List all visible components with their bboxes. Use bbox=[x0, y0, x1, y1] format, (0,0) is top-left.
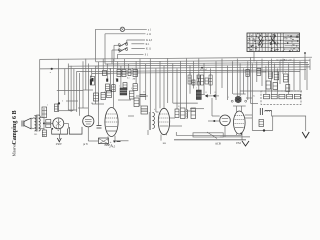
wire m10 bbox=[201, 94, 205, 96]
wire drop 44 bbox=[236, 59, 238, 96]
electrolytic C12 bbox=[90, 77, 94, 86]
wire m19 bbox=[128, 115, 134, 117]
wire left main drop bbox=[39, 59, 41, 115]
wire drop 47 bbox=[247, 61, 249, 100]
capacitor C16 bbox=[192, 80, 195, 85]
wire drop 37 bbox=[198, 59, 200, 90]
resistor R11 bbox=[107, 91, 112, 98]
wire drop 57 bbox=[279, 61, 281, 84]
wire V6 top2 bbox=[241, 106, 243, 112]
wire drop 14 bbox=[102, 59, 104, 71]
wire bus 7 bbox=[92, 72, 300, 74]
svg-text:0,1: 0,1 bbox=[96, 67, 98, 69]
wire S1b in bbox=[112, 49, 123, 51]
wire h103 bbox=[173, 102, 198, 104]
wire drop 52 bbox=[265, 66, 267, 95]
wire power top bbox=[240, 90, 302, 92]
wire V6 pin1 bbox=[236, 134, 238, 136]
wire bar 3b bbox=[174, 139, 246, 141]
wire drop 6 bbox=[76, 71, 78, 112]
wire drop 21 bbox=[128, 64, 130, 70]
resistor R8 bbox=[133, 84, 137, 91]
resistor R14 bbox=[42, 107, 47, 118]
wire S1a out bbox=[131, 43, 144, 45]
wire V1 leg1 bbox=[55, 127, 57, 129]
wire v252 bbox=[251, 98, 253, 131]
resistor R15 bbox=[46, 120, 51, 128]
capacitor C4 bbox=[260, 108, 262, 115]
svg-text:+: + bbox=[110, 141, 112, 145]
wire drop 30 bbox=[167, 59, 169, 103]
resistor R2 bbox=[117, 70, 121, 77]
wire m17 bbox=[58, 130, 59, 132]
wire drop 22 bbox=[131, 67, 133, 70]
battery box BA bbox=[99, 138, 109, 144]
mains bracket 2 bbox=[69, 127, 82, 134]
output transformer T2 bbox=[35, 115, 41, 132]
resistor R12 bbox=[129, 91, 134, 99]
resistor R26 bbox=[42, 130, 46, 137]
wire drop 43 bbox=[232, 61, 234, 94]
wire antenna lead bbox=[96, 28, 121, 30]
wire table stub left bbox=[253, 52, 255, 62]
resistor R18 bbox=[201, 75, 204, 85]
wire drop 5 bbox=[73, 68, 75, 110]
svg-text:0,1: 0,1 bbox=[178, 106, 180, 108]
IF transformer T3 (dark) bbox=[196, 90, 201, 100]
wire drop 2 bbox=[64, 68, 66, 95]
tube V6 EBL1 bbox=[234, 111, 246, 134]
arrow small left bbox=[242, 141, 249, 146]
wire m15 bbox=[245, 114, 252, 116]
wire V1 drop bbox=[67, 123, 69, 128]
wire S1b out bbox=[131, 48, 144, 50]
wire drop 15 bbox=[106, 64, 108, 79]
wire V1 leg2 bbox=[59, 128, 61, 134]
wire m2 bbox=[78, 107, 88, 109]
wire drop 49 bbox=[251, 64, 253, 99]
wire V1 right bbox=[64, 122, 69, 124]
wire m13b bbox=[211, 98, 213, 116]
wire bar 3a bbox=[113, 140, 129, 142]
wire drop 28 bbox=[159, 61, 161, 108]
wire V6 top1 bbox=[236, 106, 238, 112]
svg-text:0,1: 0,1 bbox=[107, 74, 110, 76]
wire V5 pin bbox=[224, 126, 226, 137]
wire drop 9 bbox=[85, 59, 87, 90]
wire drop 36 bbox=[193, 61, 195, 88]
mains bracket 1 bbox=[52, 129, 68, 135]
wire drop 35 bbox=[189, 66, 191, 94]
wire jack out bbox=[125, 28, 147, 30]
wire v272 bbox=[272, 116, 274, 131]
wire drop 41 bbox=[221, 59, 223, 88]
resistor R9 bbox=[94, 93, 99, 101]
wire battery dash bbox=[117, 141, 121, 143]
svg-text:5: 5 bbox=[119, 86, 120, 88]
svg-text:0,1: 0,1 bbox=[253, 96, 255, 98]
wire m16 bbox=[88, 140, 98, 142]
svg-text:b: b bbox=[154, 109, 155, 111]
svg-text:11: 11 bbox=[214, 92, 216, 94]
resistor R29 bbox=[191, 108, 196, 119]
svg-text:4: 4 bbox=[285, 72, 286, 74]
svg-text:250V: 250V bbox=[56, 143, 62, 146]
svg-text:2: 2 bbox=[228, 97, 229, 99]
resistor R19 bbox=[205, 78, 208, 84]
wire fan vertical x114 bbox=[113, 45, 115, 61]
wire m11 bbox=[208, 95, 213, 97]
wire drop 63 bbox=[306, 64, 308, 91]
wire choke out bbox=[272, 112, 306, 132]
resistor R23 bbox=[268, 72, 272, 79]
wire V3 pin2 bbox=[114, 136, 116, 141]
wire drop 32 bbox=[176, 68, 178, 109]
wire drop 8 bbox=[82, 61, 84, 108]
antenna jack J1 bbox=[120, 27, 124, 31]
capacitor C19 bbox=[286, 85, 290, 92]
wire drop 13 bbox=[97, 62, 99, 126]
wire drop 54 bbox=[271, 59, 273, 95]
trimmer C1 bbox=[140, 95, 147, 97]
wire drop 40 bbox=[215, 61, 217, 100]
wire drop 38 bbox=[203, 64, 205, 95]
wire V3 pin1 bbox=[107, 136, 109, 140]
wire bar 2 bbox=[193, 133, 223, 137]
wire to V1 bbox=[44, 122, 53, 124]
capacitor C17 bbox=[266, 81, 271, 89]
resistor R21 bbox=[246, 69, 249, 76]
wire drop 45 bbox=[239, 64, 241, 97]
wire m12 bbox=[216, 95, 220, 97]
wire drop 31 bbox=[172, 64, 174, 104]
tube V3 EBF2 bbox=[105, 108, 118, 137]
wire m9 bbox=[186, 110, 196, 112]
loudspeaker LS bbox=[22, 118, 31, 129]
svg-text:1: 1 bbox=[246, 67, 247, 69]
wire V4 pin1 bbox=[160, 135, 162, 141]
wire bus 6 bbox=[77, 70, 306, 72]
electrolytic C15 bbox=[90, 79, 92, 85]
svg-text:1: 1 bbox=[196, 88, 197, 90]
junction d bbox=[43, 122, 45, 124]
resistor R24 bbox=[274, 72, 279, 80]
wire bus 3 bbox=[105, 62, 308, 64]
wire drop 56 bbox=[276, 68, 278, 94]
junction c bbox=[201, 67, 203, 69]
band switch S1b bbox=[118, 47, 127, 52]
wire tap K45 bbox=[127, 39, 145, 41]
junction a bbox=[50, 68, 53, 74]
wire diag bbox=[207, 132, 217, 139]
resistor R17 bbox=[197, 75, 200, 85]
IF coil L2 bbox=[149, 112, 154, 130]
junction e bbox=[213, 120, 215, 122]
svg-text:K 11: K 11 bbox=[146, 48, 152, 51]
svg-text:2M: 2M bbox=[133, 78, 136, 80]
wire S1a in bbox=[114, 44, 123, 46]
wire m20 bbox=[246, 97, 252, 99]
wire m13c bbox=[190, 108, 204, 110]
junction b bbox=[58, 102, 74, 110]
wire V2 drop bbox=[87, 127, 89, 141]
wire fan vertical x96 bbox=[95, 29, 97, 61]
mains plug arrow bbox=[57, 134, 61, 142]
wire m22 bbox=[83, 89, 93, 91]
resistor network box (dashed) bbox=[261, 91, 301, 105]
wire drop 4 bbox=[70, 66, 72, 112]
capacitor C11 bbox=[128, 70, 131, 76]
resistor R1 bbox=[55, 104, 59, 112]
wire m8 bbox=[170, 125, 183, 127]
wire m4 bbox=[118, 99, 131, 101]
tube V5 diode bbox=[220, 115, 231, 126]
wire m25 bbox=[36, 114, 40, 116]
resistor R16 bbox=[188, 75, 191, 84]
wire m5 bbox=[136, 95, 148, 97]
tube V4 ECH4 bbox=[158, 108, 169, 134]
electrolytic C13 bbox=[106, 79, 108, 82]
wire V5 left bbox=[208, 120, 220, 122]
wire V5 bottom bbox=[220, 136, 250, 138]
wire m26 bbox=[57, 89, 83, 91]
wire speaker top bbox=[31, 118, 35, 120]
svg-text:2×4,5: 2×4,5 bbox=[109, 146, 116, 149]
wire m7 bbox=[170, 117, 176, 119]
wire drop 53 bbox=[267, 61, 269, 72]
wire drop 62 bbox=[304, 59, 306, 80]
wire fan vertical x104 bbox=[104, 34, 106, 64]
wire earth lead bbox=[118, 53, 144, 55]
wire drop 12 bbox=[94, 66, 96, 104]
wire drop 1 bbox=[58, 59, 60, 104]
wire drop 3 bbox=[67, 64, 69, 111]
wire drop 16 bbox=[109, 68, 111, 92]
svg-text:2: 2 bbox=[47, 105, 48, 107]
wire m3 bbox=[92, 103, 104, 105]
svg-text:11: 11 bbox=[205, 92, 207, 94]
svg-text:AF: AF bbox=[270, 88, 272, 91]
wire drop 39 bbox=[209, 68, 211, 94]
wire m13 bbox=[212, 115, 220, 117]
wire drop 46 bbox=[243, 68, 245, 94]
svg-text:EM: EM bbox=[236, 142, 241, 145]
wire drop 17 bbox=[113, 59, 115, 108]
wire V4 pin2 bbox=[166, 134, 168, 135]
svg-text:b: b bbox=[62, 101, 63, 103]
svg-text:res: res bbox=[163, 142, 166, 145]
wire drop 48 bbox=[250, 57, 252, 103]
tube V1 rectifier bbox=[53, 118, 64, 129]
wire drop 10 bbox=[88, 64, 90, 116]
wire drop 60 bbox=[293, 59, 295, 90]
junction f bbox=[263, 129, 265, 131]
wire drop 64 bbox=[309, 59, 311, 70]
diode D2 bbox=[213, 94, 216, 97]
wire drop 61 bbox=[299, 61, 301, 90]
wire bus 2 bbox=[96, 60, 311, 62]
capacitor C2 bbox=[97, 126, 102, 129]
svg-text:50000: 50000 bbox=[262, 72, 267, 74]
wire bottom right h bbox=[252, 130, 272, 132]
wire drop 58 bbox=[282, 59, 284, 74]
svg-text:6×0,1µF: 6×0,1µF bbox=[200, 68, 208, 71]
wire drop 19 bbox=[120, 66, 122, 88]
wire drop 33 bbox=[180, 61, 182, 108]
resistor R30 bbox=[259, 120, 264, 127]
resistor R27 bbox=[175, 109, 179, 118]
wire bar 1 bbox=[176, 132, 241, 135]
resistor R13 bbox=[134, 98, 139, 107]
wire drop 55 bbox=[274, 64, 276, 73]
wire drop 7 bbox=[79, 73, 81, 116]
resistor R3 bbox=[122, 70, 126, 77]
wire drop 50 bbox=[256, 61, 258, 82]
capacitor C18 bbox=[273, 83, 278, 90]
wire drop 11 bbox=[91, 68, 93, 77]
wire drop 18 bbox=[117, 61, 119, 69]
svg-text:pr 8: pr 8 bbox=[83, 143, 88, 146]
resistor R7 bbox=[123, 83, 127, 90]
resistor R22 bbox=[257, 68, 261, 75]
wire fan vertical x117 bbox=[117, 54, 119, 59]
svg-text:Camping 6 B: Camping 6 B bbox=[12, 110, 18, 144]
IF transformer T1 bbox=[141, 106, 148, 114]
wire m24 bbox=[43, 134, 45, 137]
svg-text:6: 6 bbox=[90, 76, 91, 78]
wire drop 20 bbox=[124, 59, 126, 70]
grid coil L5 bbox=[185, 110, 187, 119]
ground arrow bbox=[302, 132, 309, 138]
svg-text:25: 25 bbox=[143, 92, 145, 94]
tube V2 magic eye bbox=[83, 116, 94, 127]
filter choke L4 bbox=[265, 110, 272, 111]
svg-text:0,1: 0,1 bbox=[127, 78, 130, 80]
wire drop 51 bbox=[261, 59, 263, 86]
resistor R20 bbox=[209, 75, 212, 85]
svg-text:Minerva: Minerva bbox=[12, 144, 16, 157]
svg-text:a 11: a 11 bbox=[147, 33, 152, 36]
wire m1 bbox=[66, 100, 78, 102]
resistor R6 bbox=[112, 85, 116, 92]
wire m14 bbox=[245, 117, 252, 119]
wire drop 42 bbox=[226, 66, 228, 100]
wire drop 34 bbox=[186, 59, 188, 110]
diode D1 bbox=[205, 94, 208, 97]
wire stub x127 bbox=[126, 40, 128, 43]
wire m18 bbox=[147, 130, 149, 135]
wire drop 24 bbox=[139, 59, 141, 106]
svg-text:0,5: 0,5 bbox=[131, 88, 133, 90]
svg-text:0,2: 0,2 bbox=[189, 73, 191, 75]
oscillator coil T4 bbox=[231, 94, 247, 106]
wire m6 bbox=[156, 111, 159, 113]
svg-text:205: 205 bbox=[34, 134, 37, 136]
wire drop 25 bbox=[145, 64, 147, 101]
tube socket connection table bbox=[247, 33, 300, 52]
svg-text:ACB: ACB bbox=[215, 142, 221, 145]
wire V6 pin2 bbox=[241, 134, 243, 141]
wire bus 4 bbox=[68, 64, 309, 66]
wire drop 26 bbox=[149, 59, 151, 112]
junction battery bbox=[114, 141, 116, 143]
wire m21 bbox=[251, 102, 259, 104]
wire drop 29 bbox=[163, 66, 165, 109]
wire table stub right bbox=[304, 53, 306, 64]
coil L1 (dark) bbox=[120, 88, 127, 95]
wire aerial 2 bbox=[105, 33, 146, 35]
band switch S1a bbox=[118, 42, 127, 47]
wire drop 23 bbox=[135, 61, 137, 83]
resistor R4 bbox=[133, 70, 138, 77]
svg-text:5: 5 bbox=[98, 123, 99, 125]
svg-text:50: 50 bbox=[109, 69, 111, 71]
resistor R5 bbox=[106, 84, 110, 91]
wire drop 27 bbox=[155, 68, 157, 112]
capacitor C10 bbox=[103, 71, 107, 76]
wire drop 59 bbox=[288, 64, 290, 95]
wire m23 bbox=[68, 109, 76, 111]
junction g bbox=[51, 128, 53, 130]
resistor R10 bbox=[101, 93, 106, 100]
wire T2 out bottom bbox=[39, 128, 44, 130]
wire bus 5 bbox=[40, 67, 310, 69]
svg-text:K 4,5: K 4,5 bbox=[146, 39, 152, 42]
wire fan vertical x112b bbox=[111, 50, 113, 64]
wire speaker bottom bbox=[31, 127, 35, 130]
wire bus 1 bbox=[40, 57, 312, 59]
wire T2 out top bbox=[39, 117, 44, 119]
resistor R25 bbox=[284, 74, 289, 82]
electrolytic C14 bbox=[116, 79, 118, 82]
resistor R28 bbox=[181, 108, 186, 119]
wire v x44 bbox=[43, 108, 45, 130]
